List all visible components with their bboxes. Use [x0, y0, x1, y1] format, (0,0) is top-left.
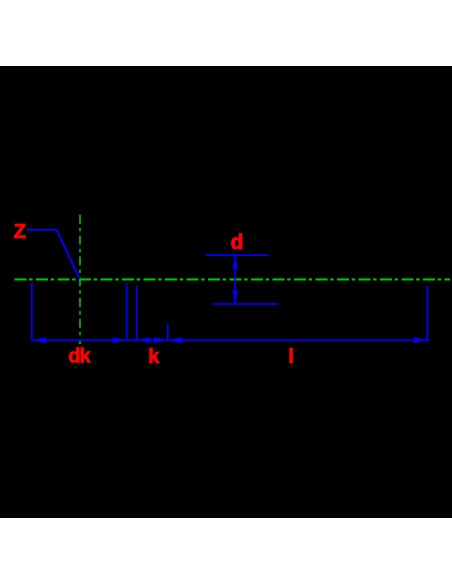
arrow k left	[137, 337, 151, 343]
arrow dk right	[113, 337, 127, 343]
extension line l right	[427, 286, 429, 341]
dimension line d (vertical)	[234, 255, 236, 304]
arrow k right	[154, 337, 168, 343]
svg-text:d: d	[231, 231, 244, 254]
black image background	[0, 66, 452, 518]
svg-text:Z: Z	[14, 221, 26, 243]
dimension line (bottom, shared by dk k l)	[32, 339, 430, 341]
tick k right / l left	[167, 324, 169, 341]
arrow d down	[232, 291, 238, 305]
leader line Z (diagonal segment)	[57, 230, 80, 279]
leader line Z (horizontal segment)	[27, 229, 58, 231]
center line vertical (green dash-dot)	[79, 215, 81, 344]
extension line k left	[136, 286, 138, 342]
svg-text:l: l	[288, 346, 294, 368]
arrow l right	[414, 337, 428, 343]
center line horizontal (green dash-dot)	[15, 278, 451, 280]
extension line dk left	[31, 281, 33, 341]
svg-text:k: k	[148, 346, 160, 368]
svg-text:dk: dk	[68, 346, 91, 368]
extension line d bottom	[213, 303, 278, 305]
arrow d up	[232, 255, 238, 269]
extension line d top	[206, 254, 269, 256]
arrow l left	[168, 337, 182, 343]
arrow dk left	[32, 337, 46, 343]
extension line dk right	[126, 283, 128, 341]
